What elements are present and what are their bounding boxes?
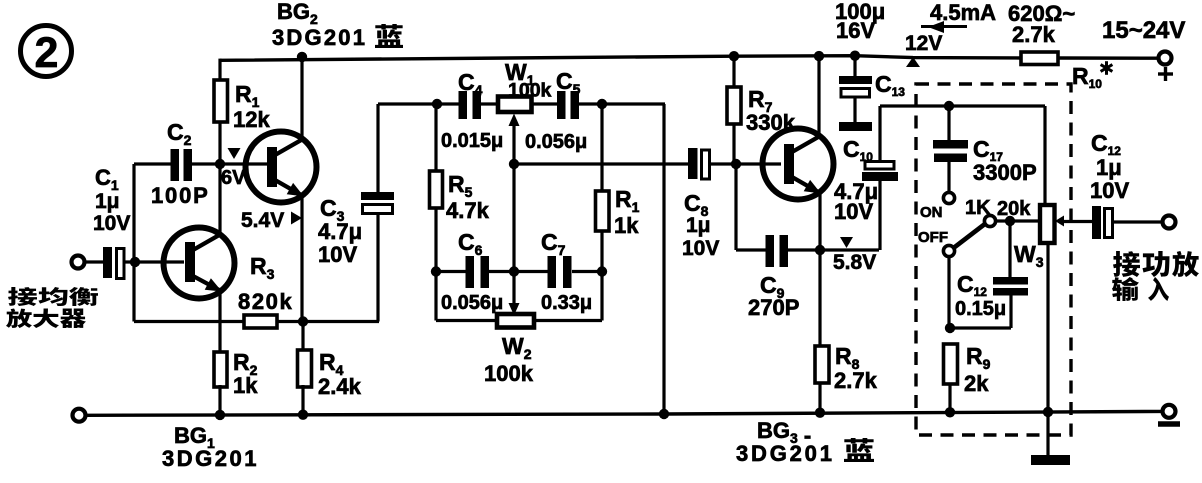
label 4.5mA bbox=[930, 0, 996, 25]
label C12 bbox=[1090, 130, 1129, 203]
svg-text:0.33μ: 0.33μ bbox=[541, 292, 592, 314]
capacitor C4 0.015u bbox=[459, 91, 500, 119]
capacitor C12a 0.15u bbox=[993, 277, 1028, 328]
svg-text:1μ: 1μ bbox=[1096, 155, 1122, 180]
wire C6 left bbox=[436, 270, 467, 273]
label R7 bbox=[746, 86, 796, 135]
svg-text:10V: 10V bbox=[318, 242, 357, 267]
node C6 C7 junction bbox=[509, 266, 519, 276]
svg-text:4.7μ: 4.7μ bbox=[318, 219, 362, 244]
label C13 bbox=[875, 71, 905, 99]
wire tone top row bbox=[378, 102, 460, 105]
node R9 top bbox=[945, 323, 955, 333]
label W3 bbox=[1014, 241, 1044, 270]
switch lever bbox=[954, 224, 986, 249]
label minus bbox=[1158, 421, 1180, 427]
label C7 bbox=[541, 229, 592, 314]
wire base node down to R3 wire bbox=[132, 262, 135, 322]
wire pole to W3 bbox=[995, 219, 1041, 222]
node 6V BG2 base bbox=[215, 159, 225, 169]
label R4 bbox=[318, 349, 362, 399]
wire top supply rail bbox=[220, 56, 1021, 61]
wire BG3 emitter down bbox=[818, 193, 821, 250]
svg-text:1μ: 1μ bbox=[95, 190, 120, 213]
label R10 value bbox=[1008, 1, 1075, 47]
label BG2 color bbox=[375, 24, 403, 48]
label 5.4V marker bbox=[241, 209, 302, 232]
resistor R2 1k bbox=[214, 352, 227, 387]
label C10 value bbox=[834, 179, 878, 224]
svg-text:10V: 10V bbox=[682, 237, 719, 260]
node W3 ground bbox=[1043, 407, 1053, 417]
svg-text:100P: 100P bbox=[151, 183, 210, 208]
node C17 top bbox=[944, 101, 954, 111]
label 15-24V bbox=[1102, 17, 1185, 44]
wire W2 right leg bbox=[533, 272, 602, 321]
svg-text:OFF: OFF bbox=[918, 229, 948, 246]
node C12a junction bbox=[1005, 216, 1015, 226]
wire W3 bottom leg bbox=[1046, 243, 1049, 456]
figure number 2 badge bbox=[21, 26, 72, 78]
label OFF bbox=[918, 229, 948, 246]
label R10 bbox=[1072, 61, 1112, 91]
node R2 ground bbox=[215, 410, 225, 420]
capacitor C1 bbox=[103, 247, 184, 279]
wire R2 to rail bbox=[218, 385, 221, 415]
label C12a bbox=[955, 271, 1006, 320]
svg-text:3300P: 3300P bbox=[973, 160, 1037, 185]
wire BG3 collector to rail bbox=[814, 51, 824, 136]
svg-text:4.7k: 4.7k bbox=[446, 198, 490, 223]
label R2 bbox=[233, 349, 258, 398]
svg-text:4.5mA: 4.5mA bbox=[930, 0, 996, 25]
label 6V bbox=[221, 167, 246, 189]
wire node to C2 bbox=[191, 162, 222, 165]
svg-text:1k: 1k bbox=[233, 373, 258, 398]
resistor R3 820k bbox=[244, 315, 277, 328]
svg-text:16V: 16V bbox=[836, 18, 875, 43]
capacitor C17 3300P bbox=[933, 106, 968, 192]
wire W2 left leg bbox=[436, 272, 498, 321]
svg-text:0.056μ: 0.056μ bbox=[525, 131, 587, 153]
wiper W1 arrow bbox=[509, 114, 520, 166]
svg-text:10V: 10V bbox=[1090, 178, 1129, 203]
node C7 right junction bbox=[597, 266, 607, 276]
marker 5.8V arrow bbox=[840, 237, 853, 248]
potentiometer W2 100k bbox=[497, 314, 534, 328]
wire R3 row left bbox=[134, 320, 245, 323]
label R6 bbox=[614, 186, 640, 238]
transistor BG2 bbox=[246, 132, 317, 203]
svg-text:1K: 1K bbox=[965, 197, 991, 219]
label R9 bbox=[964, 343, 991, 396]
capacitor C7 0.33u bbox=[514, 256, 602, 288]
wire wiper node down bbox=[512, 164, 515, 272]
wire emitter node to C10 bbox=[820, 248, 879, 251]
wire R3 row right bbox=[277, 320, 379, 323]
wire BG2 emitter down bbox=[300, 195, 303, 322]
capacitor C10 4.7u bbox=[862, 106, 898, 250]
arrow current direction bbox=[921, 21, 967, 33]
svg-text:15~24V: 15~24V bbox=[1102, 17, 1185, 44]
svg-text:12V: 12V bbox=[905, 32, 942, 55]
label W1 bbox=[505, 59, 552, 102]
ground bar C13 bbox=[839, 122, 872, 131]
output terminal bbox=[1163, 216, 1176, 229]
capacitor C5 0.056u bbox=[557, 91, 665, 119]
svg-text:2.7k: 2.7k bbox=[834, 368, 878, 393]
wire tone right down to ground bbox=[662, 104, 665, 414]
label BG3 type bbox=[736, 418, 835, 466]
wire top rail corner down to R1 bbox=[218, 59, 221, 81]
capacitor C9 270P bbox=[766, 235, 822, 267]
wire base node to BG3 bbox=[736, 162, 781, 165]
text connect equalizer amp line2 bbox=[6, 308, 86, 328]
resistor R6 1k bbox=[596, 104, 610, 272]
svg-text:2: 2 bbox=[35, 29, 59, 77]
label C2 bbox=[151, 119, 210, 208]
wire bottom ground rail bbox=[85, 411, 1163, 415]
input terminal bbox=[72, 256, 85, 269]
wire input to C1 bbox=[84, 260, 104, 263]
capacitor C13 100u bbox=[839, 56, 872, 123]
label C1 value bbox=[93, 165, 130, 235]
svg-text:6V: 6V bbox=[221, 167, 246, 189]
node BG3 base junction bbox=[731, 159, 741, 169]
wire R1 to node bbox=[218, 122, 221, 165]
svg-text:270P: 270P bbox=[748, 295, 799, 320]
wire BG2 collector to rail bbox=[297, 52, 307, 139]
label W2 bbox=[484, 333, 534, 386]
capacitor C3 4.7u bbox=[361, 192, 394, 322]
wire BG2 base bbox=[220, 162, 267, 165]
label C3 bbox=[318, 195, 362, 267]
node BG2 emitter R3 junction bbox=[298, 316, 308, 326]
svg-text:3DG201: 3DG201 bbox=[162, 446, 259, 471]
marker 6V arrow bbox=[228, 148, 241, 159]
wire BG1 collector up bbox=[218, 165, 221, 233]
label C5 bbox=[525, 68, 587, 153]
wire down to C12a bbox=[1008, 221, 1011, 278]
node R4 ground bbox=[298, 410, 308, 420]
node R7 top bbox=[729, 51, 739, 61]
wire W3 top leg bbox=[1043, 106, 1046, 206]
label R3 bbox=[238, 253, 293, 314]
svg-text:0.15μ: 0.15μ bbox=[955, 298, 1006, 320]
node C6 left junction bbox=[431, 266, 441, 276]
capacitor C2 100P bbox=[134, 149, 192, 181]
svg-text:12k: 12k bbox=[233, 107, 270, 132]
wire OFF to R9 node bbox=[947, 257, 950, 328]
svg-text:10V: 10V bbox=[93, 212, 130, 235]
node R6 top junction bbox=[597, 99, 607, 109]
label BG3 color bbox=[844, 438, 874, 462]
resistor R8 2.7k bbox=[815, 250, 829, 413]
node BG1 base junction bbox=[130, 257, 140, 267]
wiper W3 arrow bbox=[1055, 216, 1094, 227]
wire BG1 emitter down bbox=[218, 290, 221, 353]
capacitor C8 1u bbox=[688, 148, 737, 179]
label R5 bbox=[446, 171, 490, 223]
node W1 wiper out bbox=[509, 159, 519, 169]
wire C10 top to volume network bbox=[880, 104, 1045, 107]
text connect power amp line2 bbox=[1112, 277, 1169, 301]
wiper W2 arrow bbox=[509, 272, 520, 316]
node R9 ground bbox=[945, 407, 955, 417]
dashed network box bbox=[916, 84, 1071, 435]
svg-text:20k: 20k bbox=[997, 198, 1031, 220]
svg-text:0.056μ: 0.056μ bbox=[441, 292, 503, 314]
resistor R4 2.4k bbox=[298, 322, 312, 415]
svg-text:1μ: 1μ bbox=[686, 214, 711, 237]
resistor R10 620ohm-2.7k bbox=[1021, 52, 1058, 65]
svg-text:0.015μ: 0.015μ bbox=[441, 130, 503, 152]
switch ON contact bbox=[943, 192, 954, 203]
wire C9 branch bbox=[736, 164, 767, 250]
wire C12a to R9 bbox=[950, 326, 1011, 329]
capacitor C6 0.056u bbox=[466, 256, 516, 288]
label R1 bbox=[233, 81, 270, 132]
marker 12V supply bbox=[905, 32, 942, 67]
resistor R1 12k bbox=[214, 80, 228, 122]
svg-text:5.4V: 5.4V bbox=[241, 209, 284, 232]
switch pole bbox=[984, 215, 995, 226]
svg-text:2k: 2k bbox=[964, 371, 989, 396]
wire tone input top bbox=[376, 104, 379, 193]
label C9 bbox=[748, 272, 799, 320]
node BG3 emitter junction bbox=[815, 245, 825, 255]
svg-text:2.4k: 2.4k bbox=[318, 374, 362, 399]
svg-text:3DG201: 3DG201 bbox=[736, 441, 835, 466]
svg-text:100k: 100k bbox=[484, 361, 534, 386]
node C13 top bbox=[850, 51, 860, 61]
label plus bbox=[1158, 67, 1173, 81]
label R8 bbox=[834, 343, 878, 393]
label C8 bbox=[682, 190, 719, 260]
svg-text:2.7k: 2.7k bbox=[1012, 22, 1056, 47]
negative terminal bbox=[1163, 405, 1176, 418]
resistor R9 2k bbox=[944, 344, 958, 412]
svg-text:100k: 100k bbox=[508, 80, 552, 102]
transistor BG3 bbox=[763, 129, 834, 200]
label BG2 type bbox=[272, 0, 367, 50]
svg-text:3DG201: 3DG201 bbox=[272, 25, 367, 50]
potentiometer W3 20k bbox=[1040, 205, 1055, 243]
label BG1 type bbox=[162, 423, 259, 471]
wire top rail right of R10 bbox=[1058, 56, 1160, 60]
node C4 R5 junction bbox=[432, 99, 442, 109]
node R8 ground bbox=[815, 408, 825, 418]
label 5.8V bbox=[833, 251, 876, 274]
capacitor C12 1u bbox=[1092, 206, 1163, 239]
label C4 bbox=[441, 69, 503, 152]
label 100u 16V bbox=[835, 0, 885, 43]
svg-text:ON: ON bbox=[920, 204, 943, 221]
label 1K 20k bbox=[965, 197, 1031, 220]
text connect equalizer amp line1 bbox=[8, 287, 98, 306]
label ON bbox=[920, 204, 943, 221]
resistor R5 4.7k bbox=[430, 104, 443, 272]
potentiometer W1 100k bbox=[498, 97, 559, 113]
label C10 bbox=[843, 136, 873, 164]
positive supply terminal bbox=[1159, 52, 1172, 65]
ground input terminal bbox=[73, 409, 86, 422]
wire C2 branch vertical bbox=[132, 164, 135, 262]
svg-text:10V: 10V bbox=[834, 199, 873, 224]
wire tone output to C8 bbox=[514, 162, 690, 165]
node tone ground bbox=[659, 409, 669, 419]
label C6 bbox=[441, 229, 503, 314]
text connect power amp line1 bbox=[1113, 251, 1199, 277]
svg-text:1k: 1k bbox=[614, 213, 639, 238]
transistor BG1 bbox=[164, 228, 235, 299]
switch OFF contact bbox=[943, 245, 954, 256]
ground symbol bbox=[1031, 455, 1070, 465]
resistor R7 330k bbox=[727, 56, 741, 164]
svg-text:5.8V: 5.8V bbox=[833, 251, 876, 274]
svg-text:820k: 820k bbox=[238, 289, 293, 314]
label C17 bbox=[973, 136, 1037, 185]
